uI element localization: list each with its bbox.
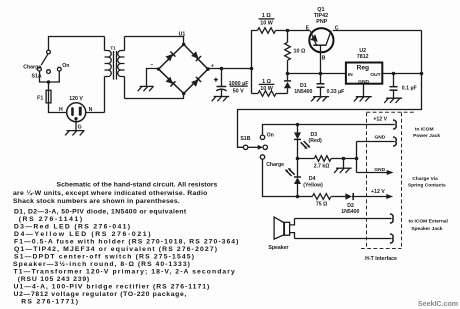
ground C1 — [212, 97, 230, 102]
wire On contact to +12V rail — [263, 125, 395, 136]
capacitor C3 0.1uF — [390, 74, 398, 99]
svg-text:On: On — [62, 63, 69, 69]
arrow +12V spring — [386, 194, 393, 199]
wire 75ohm to D2 — [331, 196, 345, 198]
op-amp U2 regulator box — [346, 63, 382, 85]
svg-text:Q1: Q1 — [317, 7, 324, 13]
wire right riser and lower feed rail — [238, 31, 422, 148]
svg-text:H: H — [59, 107, 63, 113]
resistor R5 75ohm — [312, 194, 331, 200]
diode U1 upper-left — [165, 51, 175, 61]
wire R1 to Q1 emitter — [276, 30, 311, 32]
label U2 7812 — [357, 48, 369, 60]
svg-text:+12 V: +12 V — [373, 117, 387, 123]
svg-text:10 W: 10 W — [260, 20, 273, 26]
svg-text:G: G — [78, 124, 82, 130]
label Charge Via Spring Contacts — [408, 176, 446, 189]
ground U2 — [354, 97, 372, 102]
diode U1 lower-left — [165, 77, 175, 87]
svg-text:Schematic of the hand-stand ci: Schematic of the hand-stand circuit. All… — [57, 182, 218, 189]
svg-text:F1: F1 — [37, 96, 43, 102]
resistor R4 2.7k — [314, 156, 331, 162]
label to ICOM Power Jack — [413, 127, 440, 139]
wire R2 to D1 — [276, 93, 288, 95]
label D2 1N5400 — [341, 203, 359, 215]
svg-text:GND: GND — [374, 135, 385, 141]
svg-text:Speaker: Speaker — [268, 245, 288, 251]
svg-text:D3—Red LED (RS 276-041): D3—Red LED (RS 276-041) — [14, 223, 130, 230]
svg-text:10 Ω: 10 Ω — [294, 49, 306, 55]
wire Charge contact down to charge rail — [263, 159, 298, 196]
ground C3 — [384, 98, 402, 103]
wire S1A contacts join — [40, 71, 60, 82]
label to ICOM External Speaker Jack — [408, 218, 448, 232]
wire GND to power jack — [357, 141, 395, 143]
junction Q1 base node — [319, 72, 323, 76]
connector hook speaker top — [390, 214, 393, 223]
speaker SPK1 — [274, 217, 294, 239]
wire plug N to transformer — [86, 112, 105, 114]
diode U1 upper-right — [191, 51, 201, 61]
svg-text:D3: D3 — [311, 132, 318, 138]
ground 2.7k node — [334, 159, 352, 174]
wire bridge plus rail — [208, 68, 252, 70]
wire U2 GND down — [363, 84, 365, 97]
wire mains top rail — [49, 37, 105, 51]
junction D3/D4/2.7k node — [296, 157, 300, 161]
junction D4 bottom — [296, 195, 300, 199]
node U1 left — [157, 67, 160, 70]
svg-text:−: − — [150, 62, 153, 68]
diode U1 lower-right — [191, 77, 201, 87]
wire secondary top to bridge — [125, 37, 184, 45]
svg-text:SeekIC.com: SeekIC.com — [418, 300, 458, 308]
svg-text:(RSU 105 243 239): (RSU 105 243 239) — [18, 276, 90, 283]
svg-text:0.33 µF: 0.33 µF — [327, 89, 345, 95]
svg-text:B: B — [322, 55, 326, 61]
label D4 Yellow — [303, 176, 323, 188]
svg-text:S1A: S1A — [32, 74, 42, 80]
svg-text:+12 V: +12 V — [371, 189, 385, 195]
node U1 top — [182, 43, 186, 47]
wire S1A to plug via fuse — [49, 82, 67, 113]
svg-text:(Yellow): (Yellow) — [303, 182, 323, 188]
wire Q1 collector rail — [333, 30, 422, 32]
svg-text:U1: U1 — [179, 31, 186, 37]
svg-text:S1B: S1B — [240, 136, 250, 142]
wire bridge minus to ground — [147, 69, 159, 87]
resistor R3 10ohm vertical — [285, 31, 291, 74]
svg-text:50 V: 50 V — [233, 89, 244, 95]
diode D1 — [284, 74, 291, 94]
wire speaker bottom to jack — [295, 238, 392, 240]
svg-text:D1, D2—3-A, 50-PIV diode, 1N54: D1, D2—3-A, 50-PIV diode, 1N5400 or equi… — [14, 208, 187, 215]
notes text block — [13, 182, 238, 306]
transformer T1 primary — [105, 37, 112, 113]
value R2 1ohm 10W — [259, 79, 275, 92]
junction cap tap — [220, 67, 224, 71]
wire DC riser — [252, 31, 258, 94]
wire secondary bottom to bridge — [125, 94, 184, 99]
wire D2 to spring arrow — [353, 196, 386, 198]
svg-text:10 W: 10 W — [260, 86, 273, 92]
svg-text:Speaker Jack: Speaker Jack — [411, 226, 443, 232]
ground plug G — [65, 120, 84, 135]
svg-text:120 V: 120 V — [69, 96, 83, 102]
ground bridge minus — [138, 86, 154, 91]
svg-text:RS 276-1771): RS 276-1771) — [21, 298, 78, 305]
ground C2 — [311, 97, 329, 102]
capacitor C1 1000uF — [214, 69, 227, 97]
svg-text:D4—Yellow LED (RS 276-021): D4—Yellow LED (RS 276-021) — [14, 231, 151, 238]
svg-text:D1: D1 — [300, 83, 307, 89]
diode D2 — [345, 193, 353, 200]
value C1 1000uF 50V — [229, 81, 250, 95]
svg-text:S1—DPDT center-off switch (RS: S1—DPDT center-off switch (RS 275-1545) — [14, 253, 194, 260]
junction collector riser — [420, 72, 424, 76]
svg-text:Reg: Reg — [357, 65, 369, 72]
wire charge rail to 75ohm — [298, 196, 313, 198]
svg-text:OUT: OUT — [370, 72, 380, 78]
svg-text:Power Jack: Power Jack — [413, 133, 440, 139]
junction 0.1uF tap — [392, 72, 396, 76]
svg-text:E: E — [306, 25, 310, 31]
svg-text:GND: GND — [374, 167, 385, 173]
capacitor C2 0.33uF — [317, 74, 325, 97]
svg-text:PNP: PNP — [316, 19, 327, 25]
wire Q1 base down — [320, 45, 322, 73]
svg-text:Charge: Charge — [23, 64, 41, 70]
svg-text:U1—4-A, 100-PIV bridge rectifi: U1—4-A, 100-PIV bridge rectifier (RS 276… — [14, 283, 210, 290]
svg-text:Charge: Charge — [266, 162, 284, 168]
svg-text:IN: IN — [348, 72, 353, 78]
connector hook +12V power — [393, 120, 396, 129]
svg-text:75 Ω: 75 Ω — [316, 202, 327, 208]
resistor R2 1ohm 10W bottom — [258, 91, 276, 97]
junction riser tap — [250, 67, 254, 71]
transistor Q1 — [309, 28, 333, 52]
svg-text:7812: 7812 — [357, 54, 369, 60]
svg-text:T1—Transformer 120-V primary;: T1—Transformer 120-V primary; 18-V, 2-A … — [14, 268, 236, 275]
transformer T1 core — [114, 51, 117, 80]
wire lower rail — [252, 93, 259, 95]
wire R4 to verticals — [331, 158, 356, 160]
svg-text:1N5400: 1N5400 — [341, 209, 359, 215]
svg-text:(Red): (Red) — [309, 138, 323, 144]
svg-text:2.7 kΩ: 2.7 kΩ — [314, 164, 330, 170]
connector hook GND power — [393, 137, 396, 146]
svg-text:Charge Via: Charge Via — [412, 176, 438, 182]
svg-text:Spring Contacts: Spring Contacts — [408, 183, 446, 189]
junction D3 anode — [296, 123, 300, 127]
junction GND stem — [342, 157, 346, 161]
wire middle rail to regulator IN — [288, 73, 346, 75]
svg-text:to ICOM External: to ICOM External — [408, 218, 448, 224]
svg-text:U2—7812 voltage regulator (TO-: U2—7812 voltage regulator (TO-220 packag… — [14, 291, 187, 298]
svg-text:T1: T1 — [110, 45, 116, 50]
svg-text:1N5400: 1N5400 — [294, 89, 312, 95]
svg-text:0.1 µF: 0.1 µF — [402, 85, 417, 91]
H-T interface dashed boundary — [361, 112, 415, 248]
svg-text:Q1—TIP42, MJEF34 or equivalent: Q1—TIP42, MJEF34 or equivalent (RS 276-2… — [14, 246, 217, 253]
resistor R1 1ohm 10W top — [258, 28, 276, 34]
svg-text:H-T Interface: H-T Interface — [365, 256, 397, 262]
svg-text:(RS 276-1141): (RS 276-1141) — [19, 216, 82, 223]
label D1 1N5400 — [294, 83, 312, 95]
node U1 bottom — [182, 92, 186, 96]
svg-text:Speaker—3½-inch round, 8-Ω (RS: Speaker—3½-inch round, 8-Ω (RS 40-1333) — [13, 260, 190, 268]
svg-text:F1—0.5-A fuse with holder (RS: F1—0.5-A fuse with holder (RS 270-1018, … — [14, 238, 238, 245]
value R1 1ohm 10W — [259, 13, 275, 26]
switch S1B — [243, 135, 267, 159]
svg-text:On: On — [267, 132, 274, 138]
junction middle rail left — [286, 72, 290, 76]
wire GND to spring contact arrow — [357, 172, 388, 174]
switch S1A — [38, 50, 62, 73]
plug P1 120V — [67, 103, 86, 122]
svg-text:Shack stock numbers are shown: Shack stock numbers are shown in parenth… — [13, 198, 180, 205]
wire 2.7k rail — [298, 158, 315, 160]
svg-text:to ICOM: to ICOM — [415, 127, 434, 133]
wire regulator OUT — [382, 73, 421, 75]
transformer T1 secondary — [118, 37, 125, 99]
bridge rectifier U1 diamond — [159, 44, 208, 93]
label D3 Red — [309, 132, 323, 144]
junction GND riser — [355, 157, 359, 161]
fuse F1 — [46, 90, 51, 103]
junction S1A output — [47, 80, 51, 84]
LED D4 — [285, 159, 301, 197]
connector hook speaker bottom — [390, 234, 393, 243]
wire GND riser vertical — [356, 142, 358, 173]
junction 10ohm top — [286, 29, 290, 33]
svg-text:D4: D4 — [309, 176, 316, 182]
svg-text:are ¼-W units, except where in: are ¼-W units, except where indicated ot… — [13, 189, 207, 197]
node U1 right — [206, 67, 210, 71]
arrow GND spring — [387, 170, 394, 175]
wire speaker top to jack — [295, 218, 392, 220]
LED D3 — [294, 125, 311, 159]
label Q1 TIP42 PNP — [314, 7, 328, 25]
